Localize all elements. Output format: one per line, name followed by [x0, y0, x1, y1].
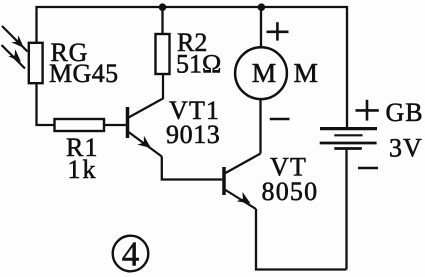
svg-text:MG45: MG45 [49, 59, 119, 88]
svg-text:8050: 8050 [262, 177, 319, 206]
svg-text:M: M [252, 57, 276, 88]
transistor VT1 [128, 74, 164, 157]
battery plus sign [356, 100, 379, 121]
wire VT1 emitter to VT base [162, 157, 223, 180]
svg-text:3V: 3V [389, 134, 423, 163]
svg-text:M: M [294, 57, 318, 88]
wire battery bottom lead [345, 149, 347, 270]
wire R2 top [161, 7, 163, 34]
figure number circle 4 [113, 235, 149, 274]
node junction dot right [258, 3, 266, 11]
resistor R1 [55, 119, 105, 131]
svg-text:9013: 9013 [166, 120, 220, 149]
node junction dot left [159, 3, 167, 11]
wire motor top [260, 7, 262, 48]
battery GB [320, 129, 377, 149]
motor plus sign [267, 22, 289, 40]
motor M [235, 47, 287, 99]
transistor VT [224, 154, 261, 210]
photoresistor RG [29, 43, 43, 83]
wire motor bottom to VT collector [259, 99, 261, 154]
wire R1 to VT1 base [104, 124, 126, 126]
battery minus sign [358, 167, 378, 170]
svg-text:GB: GB [386, 98, 424, 127]
wire top rail [37, 7, 348, 127]
motor minus sign [270, 118, 290, 121]
svg-text:1k: 1k [68, 155, 98, 184]
resistor R2 [156, 34, 170, 74]
light arrow 2 [2, 45, 26, 69]
wire left branch to R1 [37, 84, 55, 126]
svg-text:4: 4 [122, 235, 140, 274]
light arrow 1 [2, 26, 28, 52]
wire VT emitter to bottom rail [256, 209, 347, 270]
svg-text:51Ω: 51Ω [176, 49, 221, 78]
